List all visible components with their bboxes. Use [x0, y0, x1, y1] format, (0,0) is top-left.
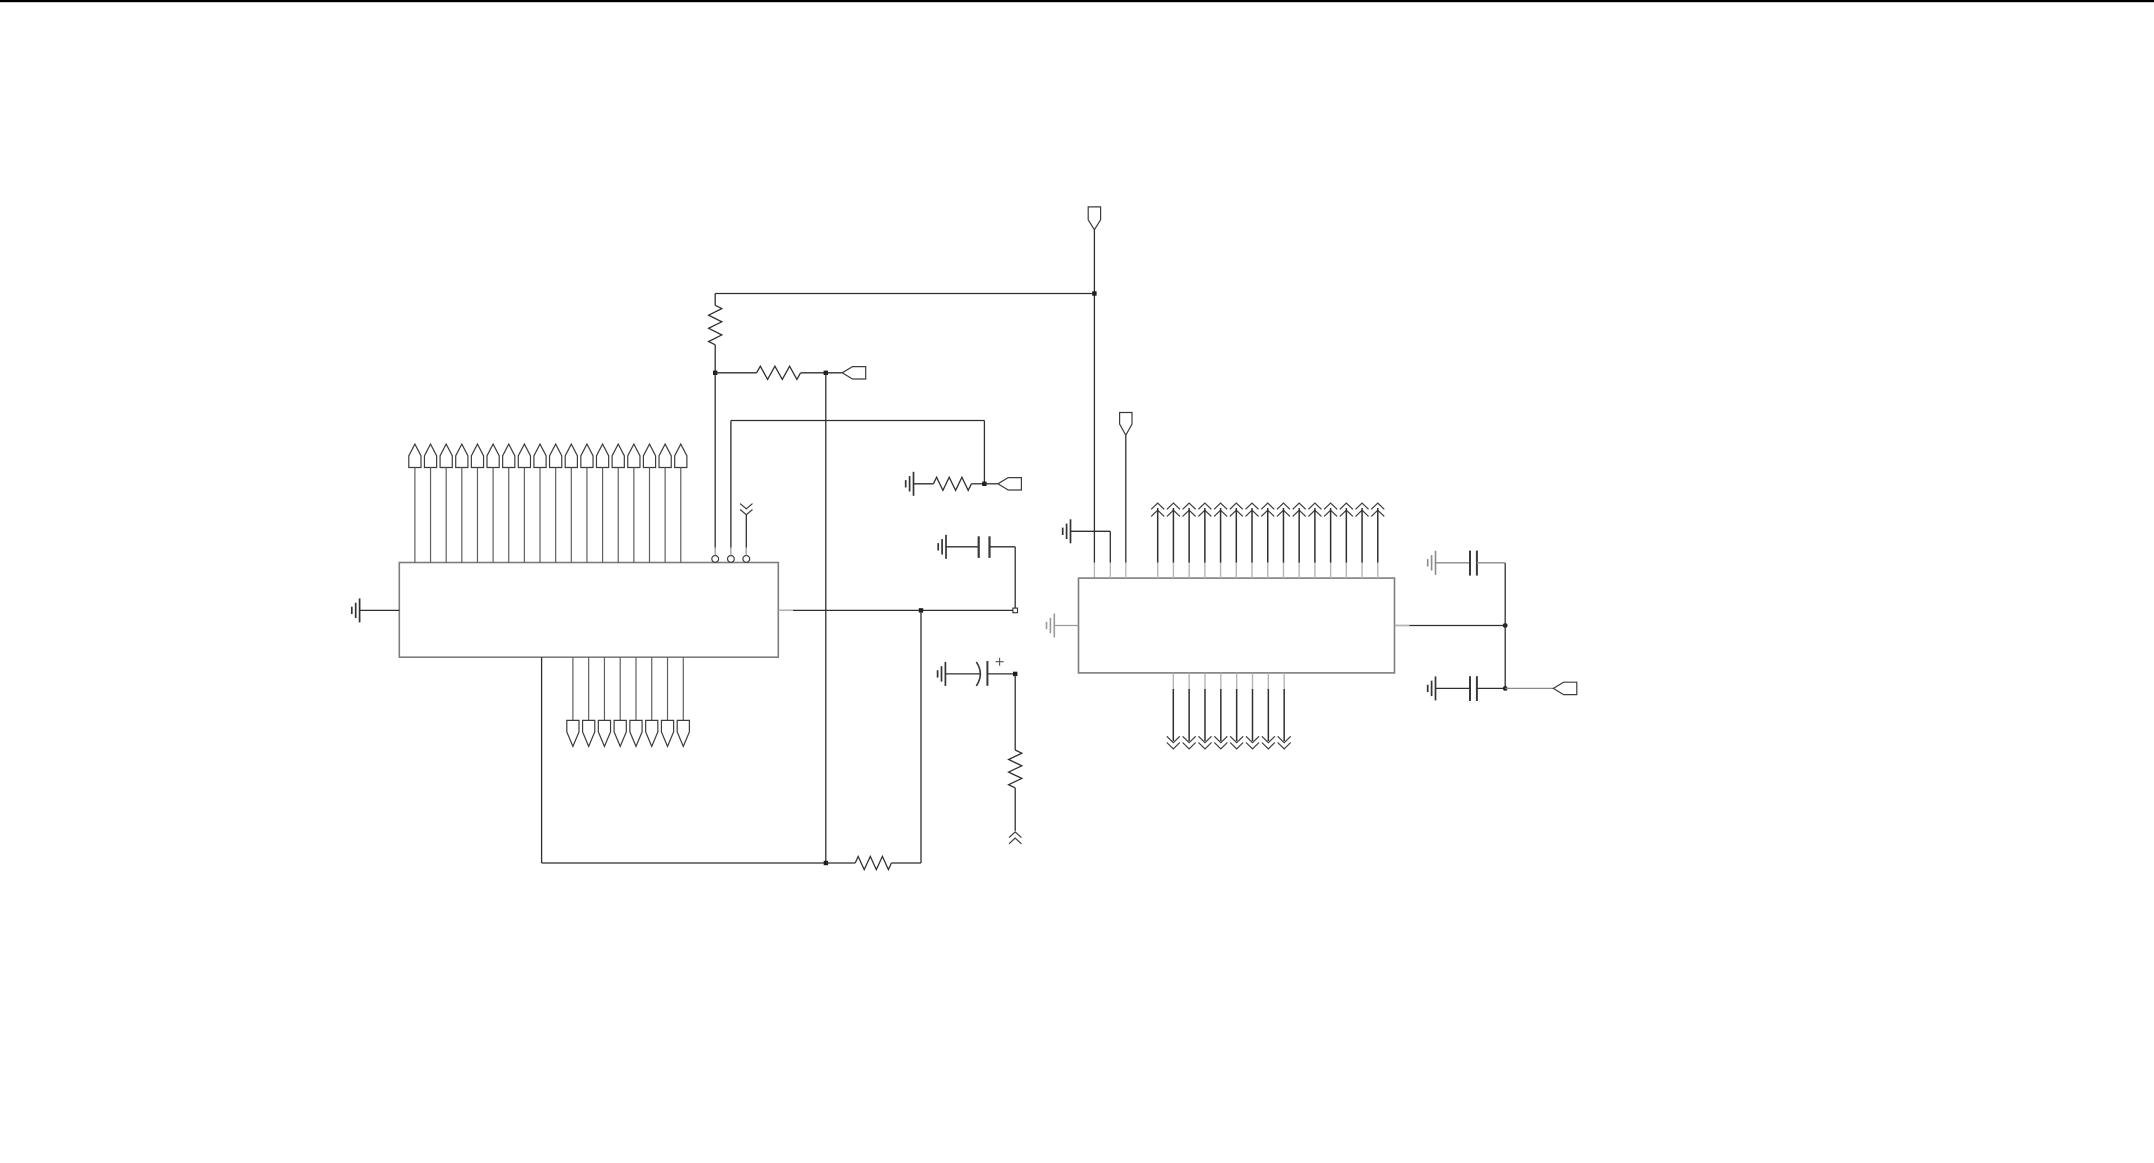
net arrow Y on bubble 3	[740, 504, 752, 556]
junction node R3 output	[982, 482, 986, 486]
U1 top pin 13 flag	[596, 444, 608, 562]
U2 top pin 3 net arrow	[1183, 503, 1196, 578]
U1 top pin 16 flag	[643, 444, 655, 562]
U1 top pin 4 flag	[456, 444, 468, 562]
connector flag F	[1553, 682, 1577, 694]
ground G6 (C1)	[938, 535, 946, 559]
wire G8 to C3 (gray)	[1436, 562, 1471, 564]
wire: junction to flag E	[984, 483, 998, 485]
no-connect square at C1 bus	[1013, 608, 1018, 613]
wire: U2 output y=625.5	[1395, 625, 1506, 627]
IC U2 body	[1079, 578, 1395, 673]
U1 top pin 2 flag	[424, 444, 436, 562]
wire: vertical bus x=1505.2	[1504, 563, 1506, 689]
junction node R1/R2	[713, 371, 717, 375]
U2 top pin 14 net arrow	[1356, 503, 1369, 578]
U1 bottom pin 2 flag	[583, 657, 595, 746]
U2 bottom pin 2 net arrow	[1183, 673, 1196, 749]
wire: flag A down to U2 top pin	[1093, 230, 1095, 563]
connector flag E	[998, 478, 1022, 490]
U1 bottom pin 3 flag	[598, 657, 610, 746]
wire G9 to C4	[1436, 687, 1471, 689]
U2 bottom pin 8 net arrow	[1278, 673, 1291, 749]
U2 top pin 9 net arrow	[1277, 503, 1290, 578]
wire G3 to U2 top pin	[1071, 531, 1111, 562]
U1 inverted pin bubble 1	[712, 556, 719, 563]
junction dot upper right	[1503, 623, 1508, 628]
wire C2 to vertical bus	[987, 673, 1015, 675]
pin stub U2 right	[1395, 625, 1410, 627]
U1 top pin 6 flag	[487, 444, 499, 562]
wire: bus down to R4	[1014, 674, 1016, 750]
U1 top pin 17 flag	[659, 444, 671, 562]
U2 top pin 7 net arrow	[1246, 503, 1259, 578]
pin stub U2 (G3 net)	[1109, 563, 1111, 578]
junction dot lower right	[1503, 686, 1508, 691]
junction node y=610.4 branch down	[919, 608, 923, 612]
U1 top pin 14 flag	[612, 444, 624, 562]
ground G3 (top left of U2)	[1063, 519, 1071, 543]
U2 top pin 11 net arrow	[1308, 503, 1321, 578]
U1 top pin 10 flag	[550, 444, 562, 562]
ground G4 (left of U2, gray)	[1047, 614, 1055, 638]
U1 top pin 15 flag	[628, 444, 640, 562]
resistor R4 (vertical)	[1009, 750, 1022, 831]
U2 top pin 1 net arrow	[1151, 503, 1164, 578]
pin stub U2 (flag B net)	[1125, 563, 1127, 578]
U1 top pin 5 flag	[471, 444, 483, 562]
wire G6 to C1	[946, 546, 979, 548]
U2 top pin 12 net arrow	[1324, 503, 1337, 578]
wire: R1 bottom to bubble 1	[714, 373, 716, 556]
net arrow (up chevrons) below R4	[1009, 832, 1021, 844]
U2 bottom pin 1 net arrow	[1167, 673, 1180, 749]
ground G9 (C4)	[1428, 676, 1436, 700]
resistor R3 (horizontal)	[933, 477, 984, 490]
U2 bottom pin 3 net arrow	[1198, 673, 1211, 749]
U1 bottom pin 6 flag	[646, 657, 658, 746]
U1 bottom pin 4 flag	[614, 657, 626, 746]
resistor R5 (horizontal)	[826, 856, 921, 869]
wire: bottom net y=870.4	[542, 862, 826, 864]
U1 bottom pin 1 flag	[567, 657, 579, 746]
U1 top pin 8 flag	[518, 444, 530, 562]
power flag A (top)	[1088, 207, 1100, 230]
top border bar	[0, 0, 2154, 2]
pin stub bubble 1	[714, 548, 716, 556]
wire: flag B to U2	[1125, 435, 1127, 563]
ground G1 (left of U1)	[352, 598, 360, 622]
U2 top pin 8 net arrow	[1261, 503, 1274, 578]
U2 bottom pin 6 net arrow	[1246, 673, 1259, 749]
wire: bubble 2 net (up/right/down)	[731, 421, 985, 556]
wire: junction to flag D	[826, 372, 842, 374]
resistor R1 (vertical)	[709, 294, 722, 373]
U1 top pin 18 flag	[675, 444, 687, 562]
U1 bottom pin 8 flag	[677, 657, 689, 746]
wire: long vertical x=826 down to bottom net	[825, 373, 827, 863]
junction node R2/flag D branch	[824, 371, 828, 375]
junction node bottom net	[824, 861, 828, 865]
wire C4 to bus	[1477, 687, 1505, 689]
wire G7 to C2	[945, 673, 980, 675]
wire: bus to flag F (gray)	[1505, 687, 1553, 689]
wire: U1 pin down left side x=541.4	[541, 657, 543, 863]
pin stub U2 (flag A net)	[1093, 563, 1095, 578]
IC U1 body	[399, 563, 778, 658]
U2 top pin 5 net arrow	[1214, 503, 1227, 578]
U1 top pin 11 flag	[565, 444, 577, 562]
capacitor C4	[1470, 676, 1477, 701]
U2 top pin 13 net arrow	[1340, 503, 1353, 578]
U1 top pin 3 flag	[440, 444, 452, 562]
power flag B	[1120, 413, 1132, 436]
ground G8 (C3, gray)	[1428, 551, 1436, 575]
junction node C2 / bus	[1013, 672, 1017, 676]
capacitor C2 (polarized)	[976, 658, 1003, 686]
U2 top pin 10 net arrow	[1293, 503, 1306, 578]
capacitor C1	[979, 536, 990, 558]
U1 top pin 12 flag	[581, 444, 593, 562]
U2 top pin 15 net arrow	[1371, 503, 1384, 578]
wire: vertical x=921 down to bottom net	[920, 610, 922, 863]
ground G5 (R3)	[906, 472, 914, 496]
U1 inverted pin bubble 2	[728, 556, 735, 563]
U1 bottom pin 7 flag	[661, 657, 673, 746]
wire: horizontal net at y=293.5	[715, 293, 1094, 295]
wire C1 to vertical bus	[990, 547, 1016, 611]
pin stub U1 right	[778, 609, 793, 611]
U2 top pin 4 net arrow	[1198, 503, 1211, 578]
wire G4 to U2 (gray)	[1054, 625, 1078, 627]
wire G5 to R3	[914, 483, 934, 485]
U1 inverted pin bubble 3	[743, 556, 750, 563]
wire G1 to U1 pin	[360, 609, 400, 611]
U2 bottom pin 5 net arrow	[1230, 673, 1243, 749]
U1 top pin 1 flag	[409, 444, 421, 562]
junction node flag A / horizontal wire	[1092, 291, 1096, 295]
U2 top pin 2 net arrow	[1167, 503, 1180, 578]
U2 top pin 6 net arrow	[1230, 503, 1243, 578]
U1 top pin 9 flag	[534, 444, 546, 562]
U2 bottom pin 4 net arrow	[1214, 673, 1227, 749]
U1 bottom pin 5 flag	[630, 657, 642, 746]
capacitor C3	[1470, 551, 1477, 576]
U2 bottom pin 7 net arrow	[1262, 673, 1275, 749]
resistor R2 (horizontal)	[715, 366, 826, 379]
wire: U1 output net y=610.4	[778, 609, 1015, 611]
wire C3 to bus (gray)	[1477, 562, 1505, 564]
ground G7 (C2)	[938, 662, 946, 686]
U1 top pin 7 flag	[503, 444, 515, 562]
connector flag D	[842, 367, 866, 379]
